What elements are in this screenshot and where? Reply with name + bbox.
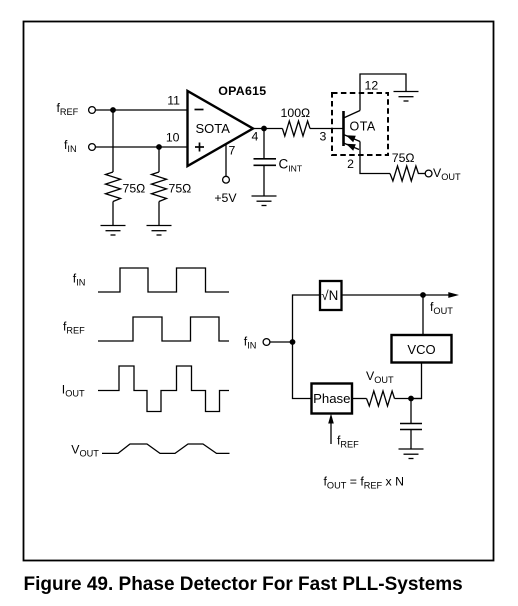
ground below R1 bbox=[101, 226, 126, 236]
arrow fOUT output bbox=[423, 294, 452, 296]
wire collector up pin 12 bbox=[360, 74, 406, 111]
wire R2 to ground bbox=[158, 202, 160, 226]
terminal +5V bbox=[223, 176, 230, 183]
svg-text:OPA615: OPA615 bbox=[218, 84, 266, 98]
terminal VOUT bbox=[425, 170, 432, 177]
svg-text:100Ω: 100Ω bbox=[281, 106, 311, 120]
wire fREF to op-amp inverting input bbox=[95, 109, 187, 111]
op-amp U1 SOTA triangle bbox=[188, 91, 254, 166]
terminal fREF bbox=[89, 107, 96, 114]
wire resistor to node bbox=[395, 398, 422, 400]
junction fOUT node bbox=[420, 292, 426, 298]
svg-text:11: 11 bbox=[167, 94, 180, 108]
wire fIN junction down to Phase bbox=[293, 342, 312, 399]
junction filter node bbox=[408, 396, 414, 402]
svg-text:10: 10 bbox=[166, 131, 180, 145]
svg-text:Figure 49. Phase Detector For: Figure 49. Phase Detector For Fast PLL-S… bbox=[24, 574, 463, 595]
wire pin7 down bbox=[225, 144, 227, 176]
waveform VOUT trace bbox=[102, 444, 230, 453]
emitter diagonal upper with arrow bbox=[344, 135, 361, 142]
resistor R filter bbox=[367, 391, 395, 406]
svg-text:2: 2 bbox=[347, 157, 354, 171]
wire CINT to ground bbox=[263, 165, 265, 196]
capacitor filter bbox=[400, 424, 422, 430]
wire node down to capacitor bbox=[410, 399, 412, 424]
plus sign non-inverting input bbox=[195, 143, 204, 152]
block divider 1/N bbox=[320, 281, 342, 310]
waveform fREF trace bbox=[98, 317, 229, 341]
wire resistor to VOUT terminal bbox=[421, 173, 426, 175]
svg-text:VCO: VCO bbox=[407, 342, 435, 357]
capacitor CINT bbox=[254, 159, 277, 166]
wire node down to CINT bbox=[263, 129, 265, 159]
dashed box OTA bbox=[332, 93, 388, 155]
wire R1 to ground bbox=[112, 202, 114, 226]
junction fIN node bbox=[290, 339, 296, 345]
wire VCO down to filter node bbox=[411, 363, 422, 399]
wire junction up to divider rail bbox=[293, 295, 321, 342]
arrowhead upper pointing to bar bbox=[346, 135, 356, 142]
junction output node bbox=[261, 126, 267, 132]
resistor R 75ohm (second) bbox=[152, 172, 167, 202]
block Phase bbox=[312, 384, 353, 414]
junction on fIN line bbox=[156, 144, 162, 150]
arrow fREF into Phase bbox=[330, 418, 332, 444]
wire fIN to junction bbox=[270, 341, 293, 343]
svg-text:+5V: +5V bbox=[214, 191, 237, 205]
wire junction down to R2 bbox=[158, 147, 160, 172]
terminal fIN bbox=[89, 144, 96, 151]
resistor R 75ohm (output) bbox=[390, 166, 421, 181]
ground below CINT bbox=[252, 196, 277, 206]
wire junction down to R1 bbox=[112, 110, 114, 172]
ground below R2 bbox=[147, 226, 172, 236]
svg-text:4: 4 bbox=[252, 130, 259, 144]
resistor R 100ohm bbox=[282, 121, 310, 136]
minus sign inverting input bbox=[195, 109, 204, 111]
wire Phase to filter resistor bbox=[352, 398, 367, 400]
svg-text:3: 3 bbox=[320, 130, 327, 144]
emitter diagonal lower with arrow bbox=[344, 143, 360, 150]
transistor OTA bar bbox=[342, 111, 345, 146]
waveform fIN trace bbox=[98, 268, 229, 292]
svg-text:75Ω: 75Ω bbox=[392, 151, 415, 165]
wire op-amp output bbox=[253, 128, 282, 130]
svg-text:7: 7 bbox=[229, 144, 236, 158]
wire emitter down pin 2 bbox=[360, 142, 390, 174]
resistor R 75ohm (left) bbox=[106, 172, 121, 202]
junction on fREF line bbox=[110, 107, 116, 113]
wire 100ohm to OTA base pin 3 bbox=[310, 128, 344, 130]
wire capacitor to ground bbox=[410, 430, 412, 450]
svg-text:75Ω: 75Ω bbox=[169, 182, 192, 196]
collector diagonal bbox=[344, 111, 361, 119]
wire fIN to op-amp non-inverting input bbox=[95, 146, 187, 148]
svg-text:OTA: OTA bbox=[350, 119, 376, 133]
arrowhead lower pointing to bar bbox=[346, 144, 356, 151]
ground at pin 12 bbox=[394, 92, 419, 102]
wire divider to fOUT junction bbox=[342, 294, 424, 296]
ground below capacitor bbox=[399, 449, 424, 459]
svg-text:√N: √N bbox=[321, 288, 338, 303]
svg-text:12: 12 bbox=[365, 79, 379, 93]
block VCO bbox=[392, 335, 452, 363]
svg-text:75Ω: 75Ω bbox=[123, 182, 146, 196]
svg-text:Phase: Phase bbox=[313, 391, 350, 406]
wire fOUT junction down to VCO bbox=[422, 295, 424, 335]
terminal fIN block diagram bbox=[263, 339, 270, 346]
svg-text:SOTA: SOTA bbox=[196, 121, 231, 136]
waveform IOUT trace bbox=[98, 366, 229, 412]
